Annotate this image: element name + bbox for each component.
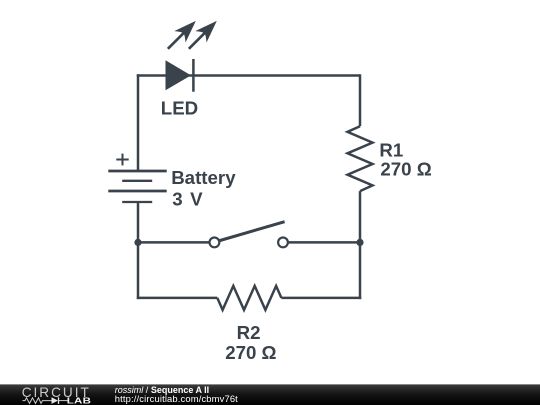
logo diode [52, 397, 59, 404]
wire right rail upper [359, 74, 362, 126]
battery B1 plates [108, 171, 166, 191]
wire switch row right [288, 241, 360, 244]
wire left rail upper [137, 74, 140, 171]
switch SW1 left terminal [210, 238, 220, 248]
wire left rail lower [137, 202, 140, 299]
battery plus sign [116, 154, 128, 166]
node junction left [134, 239, 141, 246]
svg-text:LED: LED [161, 98, 198, 119]
switch SW1 right terminal [278, 238, 288, 248]
node junction right [356, 239, 363, 246]
switch SW1 lever [218, 222, 284, 241]
LED cathode bar [192, 59, 195, 92]
svg-text:LAB: LAB [67, 397, 91, 405]
LED arrow 1 [162, 15, 201, 54]
wire bottom rail right [281, 297, 361, 300]
wire right rail lower [359, 191, 362, 299]
wire bottom rail left [137, 297, 218, 300]
LED arrow 2 [183, 15, 222, 54]
logo resistor zigzag [23, 398, 52, 404]
resistor R1 [348, 126, 373, 191]
svg-text:R2: R2 [237, 322, 261, 343]
svg-text:270 Ω: 270 Ω [225, 342, 276, 363]
logo wire to LAB [59, 400, 69, 402]
svg-text:270 Ω: 270 Ω [380, 159, 431, 180]
wire switch row left [138, 241, 210, 244]
resistor R2 [217, 286, 281, 310]
wire top rail [137, 74, 360, 77]
LED D1 triangle [166, 60, 192, 90]
svg-text:R1: R1 [379, 140, 403, 161]
svg-text:3 V: 3 V [172, 188, 204, 209]
svg-text:Battery: Battery [171, 167, 236, 188]
svg-text:http://circuitlab.com/cbmv76t: http://circuitlab.com/cbmv76t [115, 393, 238, 404]
